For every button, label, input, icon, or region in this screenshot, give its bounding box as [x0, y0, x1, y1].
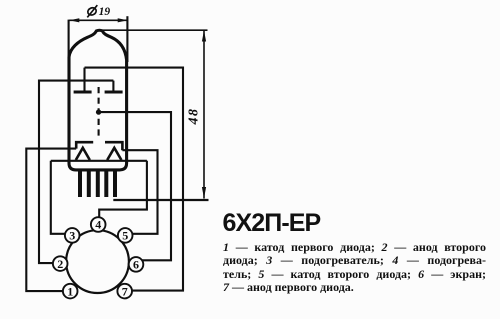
tube lead 2 [87, 170, 91, 197]
tube lead 5 [113, 170, 117, 197]
pin 3 [65, 228, 80, 243]
svg-text:3: 3 [69, 229, 75, 243]
title 6X2P-ER [223, 209, 321, 238]
pin 2 [53, 256, 68, 271]
anode 1 plate [74, 91, 92, 94]
cathode 2 bar [105, 142, 122, 150]
wire anode1 to pin7 [85, 68, 184, 291]
tube envelope [69, 30, 127, 170]
pin 5 [118, 228, 133, 243]
dimension line 48 vertical [203, 30, 205, 198]
wire cathode2 to pin5 [122, 150, 157, 234]
pin 1 [63, 284, 78, 299]
svg-text:1: 1 [67, 284, 73, 298]
svg-text:19: 19 [99, 6, 111, 18]
heater filament right [107, 148, 121, 160]
extension line left [68, 20, 70, 57]
heater baseline [51, 160, 147, 162]
junction dot screen [96, 109, 101, 114]
svg-text:5: 5 [122, 229, 128, 243]
anode 1 stem [83, 68, 85, 91]
arrowhead left [69, 18, 79, 22]
extension line right [126, 16, 128, 62]
wire screen to pin6 [99, 112, 171, 260]
cathode 1 bar [76, 142, 93, 148]
wire anode2 to pin2 [39, 81, 113, 264]
screen dashed centerline [98, 87, 100, 140]
svg-text:7: 7 [122, 284, 128, 298]
bottom reference line of height dim [113, 199, 208, 201]
wire heater to pin4 [99, 161, 147, 218]
pin 7 [117, 284, 132, 299]
anode 2 stem [112, 81, 114, 91]
socket circle [66, 230, 129, 293]
wire cathode1 to pin1 [26, 149, 76, 292]
arrowhead down [202, 187, 206, 199]
top reference line of height dim [102, 29, 208, 31]
svg-text:6: 6 [133, 258, 139, 272]
anode 2 plate [105, 91, 123, 94]
diameter label phi symbol [87, 5, 98, 17]
arrowhead right [118, 18, 128, 22]
heater filament left [76, 148, 90, 160]
svg-text:48: 48 [187, 108, 202, 126]
dimension line phi19 [69, 19, 127, 21]
arrowhead up [202, 30, 206, 41]
pin 6 [129, 257, 144, 272]
svg-text:2: 2 [57, 257, 63, 271]
tube lead 4 [104, 170, 108, 197]
tube lead 1 [78, 170, 82, 197]
legend text [223, 241, 486, 294]
pin 4 [91, 217, 106, 232]
svg-text:4: 4 [95, 218, 101, 232]
tube lead 3 [96, 170, 100, 197]
wire heater to pin3 [51, 161, 65, 234]
